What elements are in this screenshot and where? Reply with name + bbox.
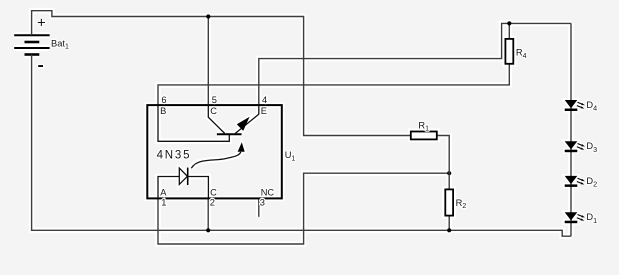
wire pin4 E to LED chain top — [259, 23, 571, 105]
svg-text:3: 3 — [260, 198, 265, 208]
svg-text:A: A — [160, 188, 167, 198]
battery minus label — [38, 65, 43, 67]
svg-text:1: 1 — [161, 198, 166, 208]
node junction A wire / R1-R2 node — [447, 171, 451, 175]
op-amp style body box of optocoupler U1 — [147, 105, 281, 198]
svg-text:2: 2 — [210, 198, 215, 208]
svg-text:NC: NC — [261, 188, 275, 198]
wire pin1 A down right and up to R1-R2 node — [158, 173, 449, 244]
transistor Q collector lead from pin5 — [208, 105, 225, 133]
battery Bat1 — [14, 35, 49, 54]
wire R4 top lead — [508, 23, 510, 39]
svg-text:C: C — [210, 188, 217, 198]
resistor R4 — [505, 39, 513, 64]
photodiode anode lead from pin1 — [158, 177, 179, 199]
node junction R2 / bottom bus — [447, 228, 451, 232]
light coupling arrow curve — [191, 152, 241, 168]
resistor R2 — [445, 189, 453, 215]
transistor Q emitter lead to pin4 — [235, 105, 259, 134]
node junction R4 top / E rail — [507, 21, 511, 25]
wire pin5 C to top rail — [207, 17, 209, 106]
LED D4 — [565, 100, 585, 111]
node junction pin5 / top rail — [206, 14, 210, 18]
svg-text:C: C — [210, 106, 217, 116]
LED D2 — [565, 176, 585, 187]
transistor Q emitter arrowhead — [237, 117, 250, 131]
photodiode cathode lead to pin2 — [188, 177, 209, 199]
transistor Q base lead from pin6 — [158, 105, 229, 141]
svg-text:+: + — [37, 14, 46, 31]
wire pin3 NC stub — [258, 198, 260, 216]
wire LED chain vertical — [570, 23, 572, 236]
svg-text:E: E — [261, 106, 267, 116]
wire battery plus to top rail down to R1 — [32, 11, 411, 136]
svg-text:B: B — [160, 106, 166, 116]
svg-text:4: 4 — [262, 95, 267, 105]
wire battery minus to bottom bus and jog to LED chain — [32, 55, 571, 237]
wire pin2 C to bottom bus — [207, 198, 209, 230]
LED D3 — [565, 141, 585, 152]
photodiode cathode bar — [187, 168, 189, 185]
light coupling arrowhead — [238, 142, 245, 152]
LED D1 — [565, 212, 585, 223]
photodiode triangle — [179, 168, 187, 184]
svg-text:4N35: 4N35 — [157, 150, 192, 162]
wire pin6 B to R4 bottom — [158, 64, 509, 105]
transistor Q base bar — [217, 133, 242, 135]
svg-text:5: 5 — [212, 95, 217, 105]
svg-text:6: 6 — [161, 95, 166, 105]
node junction pin2 / bottom bus — [206, 228, 210, 232]
resistor R1 — [411, 132, 437, 140]
wire R2 bottom to bus — [448, 216, 450, 231]
wire R1 right to R2 top — [437, 136, 449, 190]
